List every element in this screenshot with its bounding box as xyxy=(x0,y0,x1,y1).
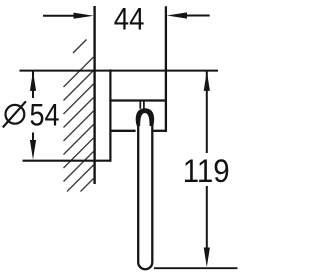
svg-text:119: 119 xyxy=(183,153,230,189)
svg-text:54: 54 xyxy=(30,96,60,132)
svg-text:44: 44 xyxy=(114,0,145,36)
